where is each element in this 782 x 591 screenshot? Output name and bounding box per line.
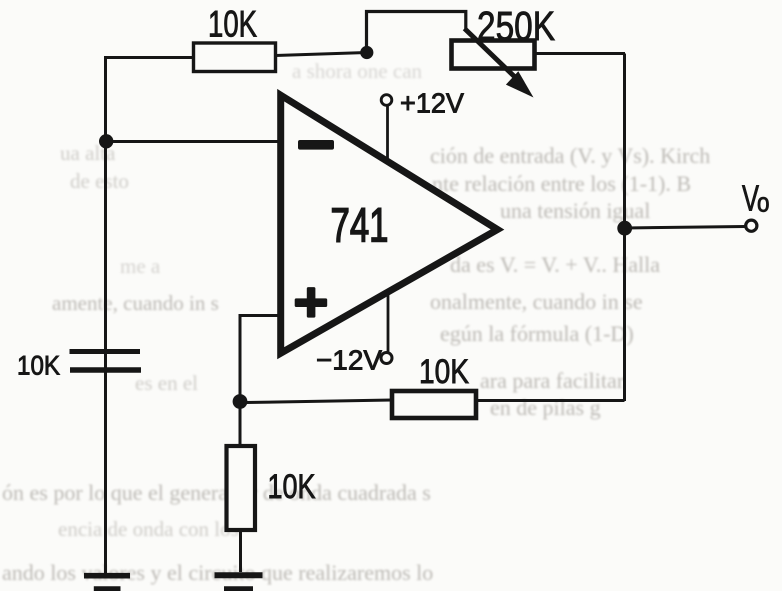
svg-text:encia de onda con los: encia de onda con los <box>58 517 239 541</box>
svg-text:250K: 250K <box>477 3 555 49</box>
svg-text:741: 741 <box>331 199 389 253</box>
svg-text:una tensión igual: una tensión igual <box>500 198 650 223</box>
svg-text:amente, cuando in s: amente, cuando in s <box>52 291 219 315</box>
svg-text:en de pilas g: en de pilas g <box>490 395 601 420</box>
svg-text:10K: 10K <box>208 3 257 45</box>
svg-text:me a: me a <box>120 254 161 278</box>
svg-text:10K: 10K <box>268 468 316 506</box>
svg-text:onalmente, cuando in se: onalmente, cuando in se <box>430 289 643 314</box>
svg-text:ción de entrada (V. y Vs). Kir: ción de entrada (V. y Vs). Kirch <box>430 143 710 168</box>
svg-text:10K: 10K <box>17 351 60 381</box>
svg-text:−12V: −12V <box>316 345 382 376</box>
svg-text:da es V. = V. + V.. Halla: da es V. = V. + V.. Halla <box>450 252 660 277</box>
svg-text:es en el: es en el <box>135 371 198 395</box>
svg-text:o: o <box>757 190 770 218</box>
svg-text:+12V: +12V <box>400 88 465 119</box>
svg-text:ara para facilitar: ara para facilitar <box>480 368 625 393</box>
svg-text:a shora one can: a shora one can <box>292 59 423 83</box>
svg-text:de esto: de esto <box>70 169 129 193</box>
svg-text:nte relación entre los (1-1).: nte relación entre los (1-1). B <box>432 171 691 196</box>
svg-text:egún la fórmula (1-D): egún la fórmula (1-D) <box>440 321 634 346</box>
svg-text:ón es por lo que el generador: ón es por lo que el generador de onda cu… <box>2 480 431 505</box>
svg-text:10K: 10K <box>419 353 469 391</box>
